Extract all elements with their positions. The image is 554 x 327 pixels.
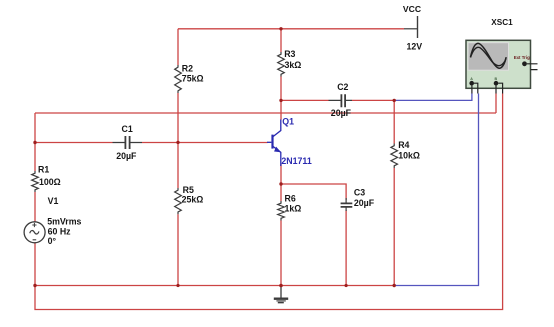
wire input line y=113 bbox=[35, 112, 496, 114]
svg-text:100Ω: 100Ω bbox=[39, 177, 61, 187]
wire emitter to C3 tap bbox=[281, 184, 346, 200]
wire C1 line right to base bbox=[142, 142, 268, 144]
resistor R6 bbox=[278, 201, 285, 221]
wire scope B+ down to input line bbox=[495, 94, 497, 114]
wire R3 branch from VCC rail bbox=[280, 29, 282, 52]
wire C2 line collector to cap bbox=[281, 99, 329, 101]
svg-text:10kΩ: 10kΩ bbox=[398, 151, 420, 161]
capacitor C1 bbox=[113, 136, 143, 149]
wire emitter down bbox=[280, 164, 282, 201]
svg-text:VCC: VCC bbox=[403, 4, 421, 14]
wire R5 bottom to ground rail bbox=[177, 214, 179, 285]
svg-text:Q1: Q1 bbox=[282, 116, 294, 126]
terminal B bbox=[494, 81, 499, 86]
VCC power symbol bbox=[404, 16, 418, 38]
svg-text:R5: R5 bbox=[183, 185, 194, 195]
svg-text:3kΩ: 3kΩ bbox=[285, 60, 302, 70]
capacitor C2 bbox=[329, 94, 353, 107]
wire bottom return rail scope B- bbox=[35, 94, 503, 310]
svg-text:20µF: 20µF bbox=[116, 151, 137, 161]
svg-text:1kΩ: 1kΩ bbox=[285, 204, 302, 214]
svg-text:R4: R4 bbox=[398, 140, 409, 150]
wire C2 cap to R4 node bbox=[352, 99, 394, 101]
transistor Q1 bbox=[267, 120, 281, 167]
svg-text:R6: R6 bbox=[285, 194, 296, 204]
svg-text:B: B bbox=[495, 77, 498, 81]
svg-text:2N1711: 2N1711 bbox=[281, 156, 311, 166]
svg-text:Ext Trig: Ext Trig bbox=[514, 55, 530, 60]
capacitor C3 bbox=[341, 198, 353, 211]
wire ground rail red segment bbox=[35, 285, 394, 287]
pin stubs below body bbox=[472, 85, 503, 93]
wire R2 branch vertical top bbox=[177, 29, 179, 65]
wire ground rail blue segment scope A- bbox=[394, 94, 478, 286]
terminal A bbox=[469, 81, 474, 86]
svg-text:A: A bbox=[470, 77, 473, 81]
oscilloscope XSC1 bbox=[466, 40, 538, 93]
svg-text:75kΩ: 75kΩ bbox=[182, 74, 204, 84]
svg-text:R2: R2 bbox=[182, 63, 193, 73]
svg-text:20µF: 20µF bbox=[354, 198, 375, 208]
wire V1 top lead to R1 bbox=[34, 192, 36, 222]
wire R4 bottom to ground rail bbox=[393, 168, 395, 286]
wire R6 bottom to ground rail bbox=[280, 221, 282, 286]
wire C3 bottom to ground rail bbox=[345, 210, 347, 286]
svg-text:12V: 12V bbox=[407, 42, 423, 52]
svg-text:R3: R3 bbox=[284, 49, 295, 59]
svg-text:C3: C3 bbox=[354, 187, 365, 197]
svg-text:5mVrms: 5mVrms bbox=[47, 217, 81, 227]
svg-text:XSC1: XSC1 bbox=[491, 18, 513, 27]
wire R3 bottom to collector node bbox=[280, 77, 282, 120]
wire output blue to scope A+ bbox=[394, 94, 472, 101]
svg-text:V1: V1 bbox=[48, 196, 59, 206]
svg-text:25kΩ: 25kΩ bbox=[182, 194, 204, 204]
svg-text:20µF: 20µF bbox=[331, 108, 352, 118]
svg-text:C2: C2 bbox=[337, 82, 348, 92]
wire C1 line left bbox=[35, 142, 113, 144]
wire R2 bottom to base node to R5 top bbox=[177, 93, 179, 188]
ground bbox=[274, 286, 288, 303]
source V1 bbox=[24, 222, 45, 243]
svg-text:C1: C1 bbox=[122, 124, 133, 134]
svg-text:0°: 0° bbox=[48, 236, 57, 246]
resistor R3 bbox=[278, 52, 285, 77]
wire input left vertical bbox=[34, 113, 36, 171]
wire VCC rail bbox=[178, 28, 404, 30]
resistor R2 bbox=[175, 65, 182, 93]
svg-text:R1: R1 bbox=[38, 165, 49, 175]
wire R4 branch vertical bbox=[393, 100, 395, 143]
resistor R4 bbox=[391, 144, 398, 169]
resistor R1 bbox=[32, 171, 39, 192]
wire V1 bottom to ground rail bbox=[34, 243, 36, 286]
resistor R5 bbox=[175, 188, 182, 214]
ext trig terminal bbox=[522, 61, 527, 66]
